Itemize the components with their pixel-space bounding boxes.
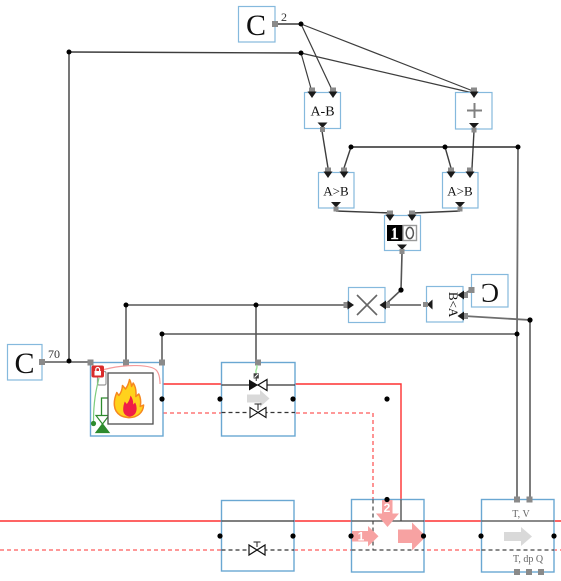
wire top horizontal from left vertical to junction xyxy=(69,52,301,53)
wire valve actuator drop xyxy=(255,305,257,360)
junction node hydraulic valve right xyxy=(290,396,295,401)
valve actuator glyph xyxy=(254,365,259,381)
wire switch output down to bend xyxy=(386,253,402,304)
svg-text:A>B: A>B xyxy=(447,184,473,199)
junction node C70 wire xyxy=(67,359,72,364)
wire bus to A>B left input 2 xyxy=(344,147,351,168)
tee block (pump) xyxy=(352,500,425,573)
valve symbol on supply xyxy=(249,380,267,391)
svg-text:A-B: A-B xyxy=(310,105,334,120)
comparator block A>B right xyxy=(443,168,479,212)
boiler furnace box xyxy=(108,373,153,424)
pipe supply boiler to corner (red solid) xyxy=(153,384,401,500)
junction node top horizontal right xyxy=(299,51,304,56)
wire A-B output down to A>B left input 1 xyxy=(322,131,328,168)
junction node tee right xyxy=(421,533,426,538)
wire top junction to plus input xyxy=(301,53,473,93)
junction node bus mid xyxy=(443,145,448,150)
junction node hydraulic mid xyxy=(384,396,389,401)
wire plus output down to A>B right input 2 xyxy=(472,131,474,168)
wire sensor bus horizontal y147 xyxy=(351,146,518,148)
switch block 1 0 xyxy=(385,211,421,255)
comparator block A>B rotated xyxy=(423,287,468,323)
wire from C2 output to junction xyxy=(275,23,301,25)
adder block plus xyxy=(456,88,493,133)
junction node top horizontal left xyxy=(67,50,72,55)
tee inlet arrow 1 xyxy=(352,526,379,547)
svg-text:T, dp Q: T, dp Q xyxy=(513,554,544,565)
junction node sensor left xyxy=(478,533,483,538)
boiler green valve xyxy=(91,416,109,433)
svg-text:C: C xyxy=(246,9,266,42)
multiplier block X xyxy=(344,288,391,323)
junction node y334 right xyxy=(515,332,520,337)
wire sensor vertical x517 xyxy=(517,147,518,497)
boiler lock icon xyxy=(92,366,105,378)
bottom valve symbol xyxy=(249,542,265,555)
wire comparator output to multiplier right input xyxy=(386,304,421,306)
junction node y334 left xyxy=(160,332,165,337)
valve supply pipe inside xyxy=(222,384,296,386)
tee inlet arrow 2 xyxy=(376,500,399,527)
comparator block A>B left xyxy=(319,168,355,212)
junction node bus left xyxy=(349,145,354,150)
wire A>B left output to switch input 1 xyxy=(336,211,391,213)
constant block C rotated xyxy=(469,275,509,308)
sensor block T V xyxy=(482,497,555,576)
pipe return stub inside boiler (gray dashed) xyxy=(153,412,163,414)
junction node sensor right xyxy=(551,533,556,538)
pipe bottom return row (red dashed) xyxy=(0,549,561,551)
svg-text:2: 2 xyxy=(384,501,391,515)
junction node tee top xyxy=(384,497,389,502)
wire top junction to A-B input 1 xyxy=(301,53,312,92)
junction node bus right xyxy=(516,145,521,150)
pipe return boiler to corner (red dashed) xyxy=(163,413,373,500)
boiler pink recirculation curve xyxy=(104,366,160,384)
wire sensor to comparator input 2 xyxy=(464,316,530,497)
wire sensor line y334 to boiler xyxy=(162,334,517,360)
wire C-rot output to comparator input 1 xyxy=(463,291,469,295)
wire left vertical xyxy=(68,52,70,361)
boiler green pipe L xyxy=(102,398,109,416)
svg-text:C: C xyxy=(481,278,499,308)
wire A>B right output to switch input 2 xyxy=(413,211,460,213)
valve return pipe inside (dashed) xyxy=(222,412,296,414)
svg-text:T, V: T, V xyxy=(512,509,530,520)
junction node at C2 output xyxy=(299,22,304,27)
junction node tee left xyxy=(348,533,353,538)
subtraction block A-B xyxy=(305,88,341,133)
constant block C value 70 xyxy=(8,345,61,381)
junction node hydraulic valve left xyxy=(217,396,222,401)
junction node bottom valve right xyxy=(290,533,295,538)
wire C2 junction to plus input xyxy=(301,24,473,91)
valve symbol on return xyxy=(250,404,266,418)
svg-text:70: 70 xyxy=(48,347,60,361)
valve flow arrow xyxy=(247,390,270,407)
wire C2 junction to A-B input 2 xyxy=(301,24,333,92)
junction node y305 at boiler xyxy=(124,303,129,308)
valve block (bottom) xyxy=(222,501,295,572)
constant block C value 2 xyxy=(239,7,288,43)
wire control line y305 to boiler and valve xyxy=(126,305,345,360)
svg-text:1: 1 xyxy=(358,530,365,544)
junction node bottom valve left xyxy=(217,533,222,538)
sensor flow arrow xyxy=(504,527,532,546)
svg-text:2: 2 xyxy=(281,10,287,24)
pipe bottom supply row (red solid) xyxy=(0,520,561,522)
boiler flame icon xyxy=(114,380,143,418)
junction node switch bend xyxy=(398,287,403,292)
boiler block xyxy=(88,360,166,437)
tee outlet arrow xyxy=(398,523,426,551)
boiler green sensor curve xyxy=(94,378,100,421)
wire bus to A>B right input 1 xyxy=(445,147,451,168)
svg-text:C: C xyxy=(14,347,34,380)
valve block (top) xyxy=(222,360,296,437)
junction node comparator feed xyxy=(527,317,532,322)
boiler controller small rect xyxy=(98,372,107,386)
svg-text:A>B: A>B xyxy=(323,184,349,199)
wire C70 output to boiler xyxy=(42,361,90,363)
junction node y305 at valve xyxy=(254,303,259,308)
junction node hydraulic boiler right xyxy=(159,396,164,401)
